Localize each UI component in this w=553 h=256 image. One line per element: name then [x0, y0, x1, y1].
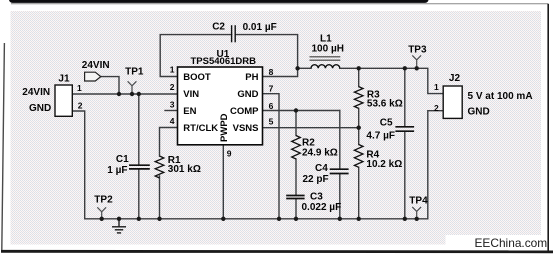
inductor L1 [311, 65, 340, 69]
wire: R3 bottom to VSNS node [358, 109, 360, 128]
capacitor C4 [330, 169, 349, 173]
svg-text:C4: C4 [315, 163, 328, 174]
wire: R2 top [295, 111, 297, 136]
svg-text:C2: C2 [212, 21, 225, 32]
svg-text:0.022 µF: 0.022 µF [302, 202, 342, 213]
svg-text:TP3: TP3 [408, 44, 427, 55]
node: PH node [295, 66, 299, 70]
svg-text:EEChina.com: EEChina.com [475, 236, 548, 250]
wire: L1 to J2 pin1 [340, 68, 443, 93]
svg-text:24VIN: 24VIN [82, 60, 110, 71]
top black rounded bar [9, 0, 429, 3]
svg-text:1: 1 [434, 82, 439, 92]
svg-text:24VIN: 24VIN [22, 87, 50, 98]
svg-text:TP2: TP2 [94, 195, 113, 206]
wire: C1 column bottom [138, 169, 140, 219]
svg-text:EN: EN [183, 106, 196, 117]
node: R2 top on COMP [294, 108, 298, 112]
wire: RT/CLK to R1 top [160, 128, 178, 157]
node: pin9 on bus [221, 217, 225, 221]
svg-text:4.7 µF: 4.7 µF [366, 131, 395, 142]
svg-text:C1: C1 [116, 154, 129, 165]
svg-text:TP4: TP4 [409, 195, 428, 206]
node: ground on bus [117, 217, 121, 221]
svg-text:2: 2 [170, 82, 175, 92]
capacitor C2 [232, 25, 236, 42]
svg-text:VSNS: VSNS [233, 123, 259, 134]
watermark white box [446, 235, 549, 251]
figure border: left line (slightly skewed) [2, 43, 5, 250]
node: R4 on bus [357, 217, 361, 221]
svg-text:1: 1 [170, 65, 175, 75]
svg-text:1: 1 [77, 83, 82, 93]
wire: PH stub [263, 68, 298, 76]
svg-text:100 µH: 100 µH [312, 43, 344, 54]
node: C5 top [403, 66, 407, 70]
node: C4 on bus [338, 217, 342, 221]
svg-text:5: 5 [269, 117, 274, 127]
node: pin7 on bus [277, 217, 281, 221]
figure border: top thin line [11, 3, 548, 5]
svg-text:53.6 kΩ: 53.6 kΩ [367, 99, 403, 110]
svg-text:GND: GND [237, 89, 258, 100]
figure border: right line [547, 4, 549, 252]
svg-text:TPS54061DRB: TPS54061DRB [191, 56, 257, 67]
net flag 24VIN [85, 72, 101, 81]
wire: GND pin7 to bus [263, 94, 280, 219]
wire: R2 bottom to C3 [295, 159, 297, 195]
capacitor C3 [286, 196, 304, 199]
wire: BOOT loop left and top to C2 [160, 35, 231, 77]
test point TP3 [412, 55, 421, 68]
figure border: bottom line [1, 250, 553, 253]
svg-text:VIN: VIN [183, 89, 199, 100]
wire: PH node to L1 [298, 67, 311, 69]
svg-text:GND: GND [468, 107, 490, 118]
node: C1-main junction [137, 92, 141, 96]
resistor R4 [354, 145, 363, 168]
svg-text:1 µF: 1 µF [107, 165, 127, 176]
IC U1 TPS54061DRB body [178, 67, 263, 145]
svg-text:2: 2 [78, 101, 83, 111]
node: VSNS divider [357, 126, 361, 130]
node: C3 on bus [294, 217, 298, 221]
node: TP4 on bus [415, 217, 419, 221]
wire: R1 bottom to bus [159, 176, 161, 219]
svg-text:5 V at 100 mA: 5 V at 100 mA [468, 91, 533, 102]
svg-text:10.2 kΩ: 10.2 kΩ [366, 159, 402, 170]
wire: C4 bottom to bus [339, 174, 341, 219]
node: R3 top [357, 66, 361, 70]
svg-text:6: 6 [269, 101, 274, 111]
svg-text:C3: C3 [310, 192, 323, 203]
svg-text:BOOT: BOOT [183, 72, 211, 83]
wire: C5 bottom to bus [404, 131, 406, 218]
wire: VSNS pin5 to divider [263, 127, 359, 129]
node: flag-main junction [117, 92, 121, 96]
capacitor C1 [129, 165, 150, 169]
wire: R3 top [358, 68, 360, 86]
capacitor C5 [395, 127, 414, 131]
connector J2 [443, 86, 462, 118]
svg-text:22 pF: 22 pF [303, 174, 329, 185]
test point TP2 [97, 207, 106, 219]
wire: COMP pin6 to C4 column [263, 110, 340, 112]
node: C5 on bus [403, 217, 407, 221]
wire: R4 top [358, 128, 360, 145]
test point TP4 [412, 207, 421, 219]
svg-text:9: 9 [227, 149, 232, 159]
resistor R3 [354, 87, 363, 109]
node: TP3 [415, 66, 419, 70]
wire: U1 pin9 to bus [222, 145, 224, 219]
svg-text:J2: J2 [449, 73, 461, 84]
wire: ground bus [85, 111, 444, 219]
node: TP1-main junction [130, 92, 134, 96]
wire: J1 pin2 down [72, 111, 84, 219]
node: TP2 on bus [100, 217, 104, 221]
ground [112, 219, 126, 233]
wire: C3 bottom to bus [295, 199, 297, 219]
svg-text:GND: GND [29, 103, 51, 114]
svg-text:COMP: COMP [230, 106, 259, 117]
connector J1 [55, 85, 72, 116]
wire: C5 column top [404, 68, 406, 126]
wire: main input J1 pin1 to U1 VIN [72, 93, 177, 95]
svg-text:8: 8 [269, 67, 274, 77]
wire: C4 column top [339, 111, 341, 170]
wire: R4 bottom to bus [358, 167, 360, 219]
wire: EN stub [165, 110, 178, 112]
svg-text:PWPD: PWPD [219, 113, 230, 142]
node: R1 on bus [157, 217, 161, 221]
test point TP1 [128, 81, 137, 94]
svg-text:301 kΩ: 301 kΩ [168, 164, 201, 175]
svg-text:24.9 kΩ: 24.9 kΩ [302, 148, 338, 159]
svg-text:7: 7 [269, 84, 274, 94]
resistor R1 [155, 156, 164, 178]
svg-text:C5: C5 [380, 118, 393, 129]
svg-text:3: 3 [170, 99, 175, 109]
svg-text:RT/CLK: RT/CLK [183, 123, 218, 134]
resistor R2 [292, 136, 301, 159]
node: C1 on bus [137, 217, 141, 221]
wire: C2 right to PH node [235, 35, 297, 69]
svg-text:0.01 µF: 0.01 µF [243, 22, 277, 33]
svg-text:2: 2 [434, 103, 439, 113]
svg-text:J1: J1 [58, 73, 70, 84]
wire: 24VIN flag drop [101, 77, 120, 94]
svg-text:PH: PH [245, 72, 258, 83]
wire: C1 column top [138, 94, 140, 165]
svg-text:4: 4 [170, 116, 175, 126]
svg-text:TP1: TP1 [125, 66, 144, 77]
